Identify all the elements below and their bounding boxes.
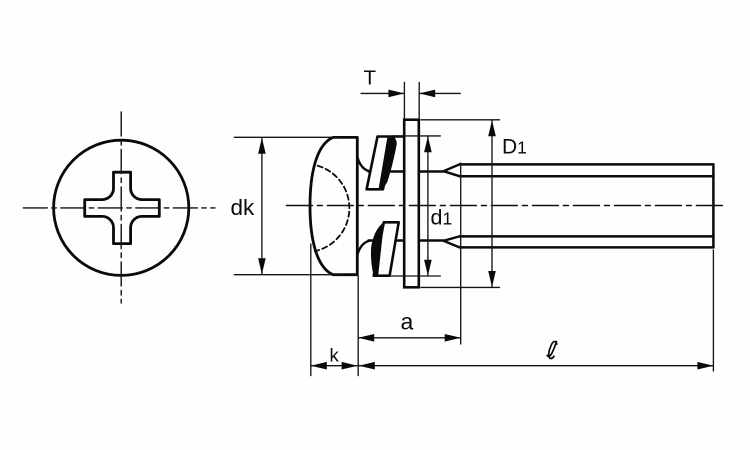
side view: horizontal centerline	[286, 205, 726, 207]
spring washer top edge tie line	[394, 135, 405, 137]
k + l dimension line	[311, 365, 714, 367]
l arrows	[359, 362, 375, 370]
thread root lines	[460, 176, 714, 236]
hidden dome arc (dashed)	[315, 166, 349, 252]
under-head fillet top	[356, 149, 370, 172]
label l (script ell)	[549, 341, 557, 358]
under-head fillet bottom	[356, 241, 370, 264]
front view: vertical centerline	[120, 112, 122, 303]
flat washer	[404, 120, 419, 288]
a arrows	[358, 334, 374, 342]
spring washer bottom section	[371, 222, 399, 275]
svg-text:D1: D1	[502, 135, 527, 158]
front view: horizontal centerline	[23, 207, 215, 209]
k arrows	[311, 362, 327, 370]
d1 arrows	[424, 136, 432, 152]
pan head (side view)	[310, 137, 357, 274]
svg-text:T: T	[364, 67, 377, 90]
dk dimension line	[261, 138, 263, 274]
T dimension line	[361, 92, 403, 94]
dk extension lines	[234, 136, 341, 138]
l extension line	[712, 250, 714, 371]
wire: shank neck bottom edge	[369, 239, 444, 241]
a extension line	[460, 163, 462, 344]
thread chamfer cone top	[444, 164, 460, 176]
dk arrows	[258, 138, 266, 154]
D1 dimension line	[491, 121, 493, 287]
svg-text:dk: dk	[231, 195, 256, 220]
arrowheads	[258, 90, 713, 370]
d1 dimension line	[427, 137, 429, 276]
thread crest lines	[460, 164, 714, 247]
D1 arrows	[488, 120, 496, 136]
D1 extension lines	[421, 119, 500, 121]
d1 extension lines	[394, 135, 440, 137]
spring washer top section	[367, 137, 397, 190]
phillips cross recess	[85, 172, 160, 243]
wire: shank neck top edge	[369, 170, 444, 172]
a dimension line	[358, 337, 461, 339]
T extension lines	[403, 82, 405, 118]
bearing-face extension line	[357, 276, 359, 376]
screw point end face	[712, 164, 715, 247]
svg-text:a: a	[401, 308, 414, 334]
svg-text:d1: d1	[431, 205, 453, 229]
T arrows	[388, 90, 404, 98]
k extension line	[310, 244, 312, 376]
svg-text:k: k	[330, 344, 340, 365]
thread chamfer cone bottom	[444, 236, 460, 247]
screw head outline (front view circle)	[54, 140, 189, 275]
